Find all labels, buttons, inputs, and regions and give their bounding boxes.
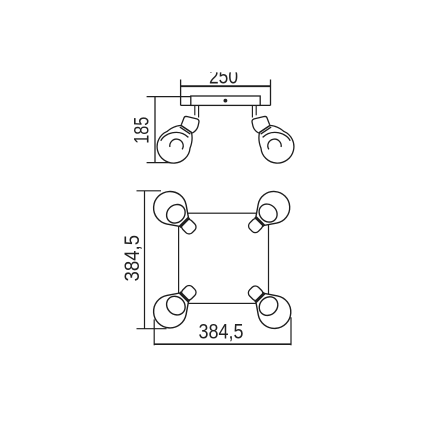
svg-text:384,5: 384,5 xyxy=(199,321,244,344)
svg-text:185: 185 xyxy=(130,117,153,144)
svg-text:384,5: 384,5 xyxy=(121,235,144,282)
